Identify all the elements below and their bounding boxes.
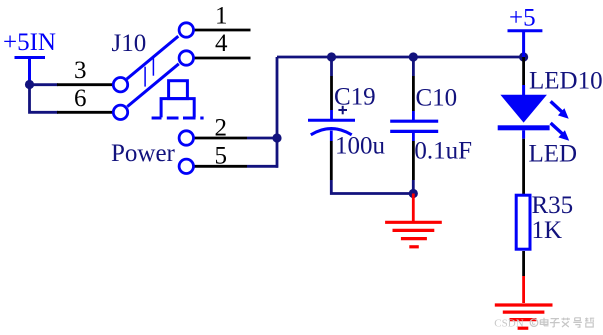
- pin 4: [179, 30, 250, 65]
- wire pin5 to bus: [247, 165, 278, 168]
- wire to pin 3: [30, 83, 59, 86]
- switch lever pole 2: [127, 64, 179, 107]
- svg-text:1: 1: [215, 3, 228, 30]
- switch lever pole 1: [127, 36, 179, 79]
- wire pin2 to bus: [247, 137, 278, 140]
- svg-text:C10: C10: [416, 85, 458, 112]
- resistor R35: [516, 192, 573, 249]
- pin 6: [57, 85, 128, 120]
- switch linkage dashes: [145, 56, 153, 87]
- ground GND1: [385, 194, 442, 247]
- LED arrow 1: [551, 101, 569, 118]
- watermark: [494, 318, 594, 330]
- node C10 top: [409, 52, 418, 61]
- node C19 top: [327, 52, 336, 61]
- svg-text:3: 3: [74, 57, 87, 84]
- wire cap bottoms: [331, 180, 413, 194]
- svg-text:CSDN: CSDN: [494, 318, 523, 330]
- node ground junction: [409, 189, 418, 198]
- wire R35 to ground: [522, 251, 525, 276]
- svg-text:5: 5: [215, 143, 228, 170]
- wire to pin 6: [30, 85, 59, 113]
- LED arrow 2: [551, 123, 570, 141]
- node +5IN junction: [25, 80, 34, 89]
- pin 3: [57, 57, 128, 92]
- svg-text:2: 2: [215, 115, 228, 142]
- wire vertical bus: [276, 57, 279, 168]
- pin 1: [179, 3, 250, 38]
- svg-text:1K: 1K: [532, 217, 563, 244]
- node +5 rail: [519, 52, 528, 61]
- capacitor C10: [390, 57, 472, 180]
- svg-text:LED10: LED10: [529, 68, 603, 95]
- node pin2 junction: [272, 133, 281, 142]
- svg-text:+5IN: +5IN: [3, 29, 56, 56]
- wire top rail: [277, 56, 524, 59]
- svg-text:0.1uF: 0.1uF: [414, 137, 472, 164]
- svg-text:4: 4: [215, 30, 228, 57]
- wire LED to R35: [522, 139, 525, 195]
- svg-text:C19: C19: [334, 84, 376, 111]
- capacitor C19: [308, 57, 386, 180]
- svg-text:R35: R35: [532, 192, 574, 219]
- svg-text:LED: LED: [529, 141, 578, 168]
- svg-text:J10: J10: [112, 30, 147, 57]
- diode LED10: [498, 57, 603, 168]
- power flag +5IN: [3, 29, 56, 85]
- svg-text:Power: Power: [111, 140, 176, 167]
- pin 2: [179, 115, 247, 146]
- push button actuator: [152, 81, 204, 118]
- ground GND2: [495, 276, 553, 328]
- pin 5: [179, 143, 247, 174]
- svg-text:+5: +5: [509, 5, 536, 32]
- svg-text:6: 6: [74, 85, 87, 112]
- svg-text:100u: 100u: [335, 133, 386, 160]
- power flag +5: [508, 5, 543, 58]
